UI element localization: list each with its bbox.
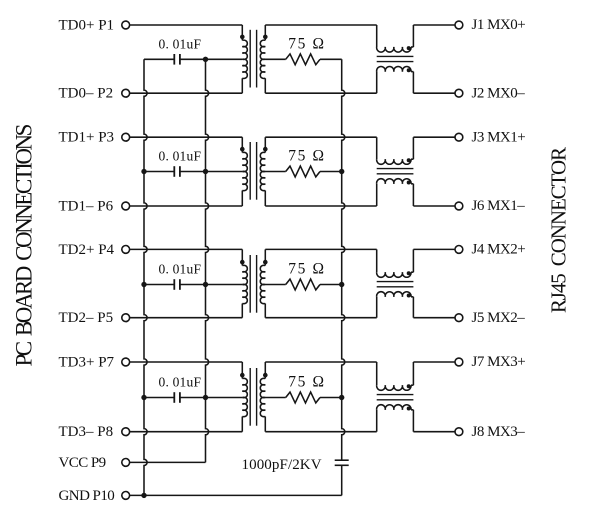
wire: ch2 secondary bottom rail bbox=[265, 205, 376, 207]
svg-text:TD3– P8: TD3– P8 bbox=[59, 424, 114, 440]
pin terminal J5 bbox=[455, 314, 463, 322]
junction: GND bus / GND rail bbox=[141, 493, 146, 498]
svg-text:TD0+ P1: TD0+ P1 bbox=[59, 18, 115, 34]
wire: ch4 secondary top rail bbox=[265, 361, 376, 363]
pin terminal P1 bbox=[122, 21, 130, 29]
wire: choke L4 bottom-right drop bbox=[412, 410, 414, 432]
wire: choke L1 top-left drop bbox=[376, 25, 378, 47]
wire: choke L3 top-left drop bbox=[376, 249, 378, 272]
svg-text:0. 01uF: 0. 01uF bbox=[159, 375, 202, 390]
svg-text:J8 MX3–: J8 MX3– bbox=[472, 424, 526, 440]
wire: ch3 secondary center tap to resistor bbox=[265, 284, 285, 286]
T3 core bbox=[249, 255, 251, 313]
pin terminal J7 bbox=[455, 358, 463, 366]
wire: T2 primary top stub bbox=[241, 137, 243, 152]
svg-text:1000pF/2KV: 1000pF/2KV bbox=[242, 457, 322, 473]
pin terminal P4 bbox=[122, 246, 130, 254]
wire: ch3 to J output minus bbox=[413, 317, 455, 319]
svg-text:TD3+ P7: TD3+ P7 bbox=[59, 355, 115, 371]
wire: L4 bottom winding to corner bbox=[411, 409, 413, 411]
pin terminal J4 bbox=[455, 246, 463, 254]
wire: T1 primary top stub bbox=[241, 25, 243, 40]
wire: choke L2 bottom-right drop bbox=[412, 184, 414, 206]
wire: ch3 secondary bottom rail bbox=[265, 317, 376, 319]
svg-text:J7 MX3+: J7 MX3+ bbox=[472, 354, 526, 370]
wire: T4 secondary top stub bbox=[264, 362, 266, 379]
svg-text:J5 MX2–: J5 MX2– bbox=[472, 310, 526, 326]
pin terminal P10 bbox=[122, 492, 130, 500]
svg-text:75 Ω: 75 Ω bbox=[288, 148, 325, 165]
wire: ch1 cap line left bbox=[144, 58, 174, 60]
wire: L2 bottom winding to corner bbox=[411, 183, 413, 185]
wire: T4 primary bottom stub bbox=[241, 417, 243, 432]
svg-text:75 Ω: 75 Ω bbox=[288, 261, 325, 278]
wire: ch3 cap line left bbox=[144, 284, 174, 286]
junction: resistor bus / ch2 bbox=[339, 169, 344, 174]
pin terminal P8 bbox=[122, 428, 130, 436]
capacitor C2 0.01uF bbox=[173, 166, 175, 177]
capacitor C3 0.01uF bbox=[173, 279, 175, 290]
L2 top winding bbox=[377, 159, 411, 164]
L3 bottom polarity dot bbox=[407, 294, 411, 298]
T2 primary polarity dot bbox=[240, 147, 245, 152]
wire: 1000pF cap to GND rail bbox=[341, 465, 343, 495]
svg-text:J2 MX0–: J2 MX0– bbox=[472, 85, 526, 101]
wire: choke L4 bottom-left drop bbox=[376, 410, 378, 432]
wire: Pch3 plus line left bbox=[130, 248, 243, 250]
wire: GND P10 rail bbox=[130, 494, 342, 496]
wire: T4 primary top stub bbox=[241, 362, 243, 379]
L3 top polarity dot bbox=[407, 271, 411, 275]
T3 secondary polarity dot bbox=[263, 260, 268, 265]
wire: T3 secondary bottom stub bbox=[264, 304, 266, 318]
T3 secondary winding bbox=[260, 265, 265, 303]
T2 core bbox=[249, 142, 251, 200]
svg-text:75 Ω: 75 Ω bbox=[288, 374, 325, 391]
wire: choke L1 top-right rise bbox=[412, 25, 414, 47]
L1 bottom polarity dot bbox=[407, 68, 411, 72]
wire: ch1 to J output plus bbox=[413, 24, 455, 26]
pin terminal J8 bbox=[455, 428, 463, 436]
T4 core bbox=[249, 368, 251, 426]
wire: ch1 secondary bottom rail bbox=[265, 92, 376, 94]
wire: ch1 secondary top rail bbox=[265, 24, 376, 26]
L2 core bbox=[377, 168, 414, 170]
wire: T3 primary top stub bbox=[241, 249, 243, 265]
wire: ch2 secondary top rail bbox=[265, 136, 376, 138]
T4 primary winding bbox=[242, 378, 247, 416]
wire: ch4 cap line left bbox=[144, 397, 174, 399]
L3 core bbox=[377, 281, 414, 283]
wire: ch2 cap line left bbox=[144, 171, 174, 173]
svg-text:J4 MX2+: J4 MX2+ bbox=[472, 242, 526, 258]
svg-text:TD2– P5: TD2– P5 bbox=[59, 310, 114, 326]
L1 top winding bbox=[377, 47, 411, 52]
wire: ch4 to J output minus bbox=[413, 431, 455, 433]
T1 core bbox=[249, 30, 251, 88]
T1 secondary winding bbox=[260, 40, 265, 78]
wire: Pch1 plus line left bbox=[130, 24, 243, 26]
capacitor C1 0.01uF bbox=[173, 54, 175, 65]
L4 core bbox=[377, 394, 414, 396]
wire: choke L4 top-right rise bbox=[412, 362, 414, 385]
wire: T1 secondary bottom stub bbox=[264, 78, 266, 93]
L4 bottom winding bbox=[377, 405, 411, 410]
wire: ch1 to J output minus bbox=[413, 92, 455, 94]
svg-text:TD2+ P4: TD2+ P4 bbox=[59, 242, 115, 258]
wire: resistor common bus vertical bbox=[342, 59, 345, 460]
pin terminal P2 bbox=[122, 89, 130, 97]
svg-text:TD1– P6: TD1– P6 bbox=[59, 199, 114, 215]
wire: Pch2 plus line left bbox=[130, 136, 243, 138]
wire: choke L1 bottom-left drop bbox=[376, 72, 378, 94]
wire: ch2 to J output minus bbox=[413, 205, 455, 207]
junction: VCC bus / ch2 cap line bbox=[203, 169, 208, 174]
resistor R4 75 ohm bbox=[286, 392, 320, 403]
L2 bottom polarity dot bbox=[407, 181, 411, 185]
wire: T2 primary bottom stub bbox=[241, 191, 243, 207]
pin terminal P5 bbox=[122, 314, 130, 322]
wire: ch1 minus line left bbox=[130, 92, 243, 94]
L1 bottom winding bbox=[377, 67, 411, 72]
T4 secondary winding bbox=[260, 378, 265, 416]
svg-text:VCC P9: VCC P9 bbox=[59, 455, 106, 471]
L3 bottom winding bbox=[377, 292, 411, 297]
junction: resistor bus / ch3 bbox=[339, 282, 344, 287]
wire: R1 to resistor bus bbox=[320, 58, 342, 60]
L4 bottom polarity dot bbox=[407, 407, 411, 411]
resistor R1 75 ohm bbox=[286, 54, 320, 65]
wire: choke L1 bottom-right drop bbox=[412, 72, 414, 94]
wire: ch4 secondary center tap to resistor bbox=[265, 397, 285, 399]
svg-text:0. 01uF: 0. 01uF bbox=[159, 262, 202, 277]
svg-text:RJ45 CONNECTOR: RJ45 CONNECTOR bbox=[546, 147, 570, 313]
T1 secondary polarity dot bbox=[263, 35, 268, 40]
wire: ch2 to J output plus bbox=[413, 136, 455, 138]
pin terminal J1 bbox=[455, 21, 463, 29]
wire: ch3 to J output plus bbox=[413, 248, 455, 250]
wire: T4 secondary bottom stub bbox=[264, 417, 266, 432]
T2 secondary polarity dot bbox=[263, 147, 268, 152]
pin terminal P7 bbox=[122, 358, 130, 366]
T1 primary winding bbox=[242, 40, 247, 78]
pin terminal J6 bbox=[455, 202, 463, 210]
wire: ch2 minus line left bbox=[130, 205, 243, 207]
svg-text:TD1+ P3: TD1+ P3 bbox=[59, 130, 115, 146]
L1 core bbox=[377, 55, 414, 57]
pin terminal P6 bbox=[122, 202, 130, 210]
junction: resistor bus / ch4 bbox=[339, 395, 344, 400]
wire: R3 to resistor bus bbox=[320, 284, 342, 286]
T4 secondary polarity dot bbox=[263, 373, 268, 378]
wire: ch3 minus line left bbox=[130, 317, 243, 319]
wire: ch4 cap line to primary center tap bbox=[180, 397, 242, 399]
wire: GND bus vertical (cap left commons) bbox=[144, 59, 147, 495]
junction: VCC bus / ch4 cap line bbox=[203, 395, 208, 400]
junction: GND bus / ch2 cap line bbox=[141, 169, 146, 174]
junction: GND bus / ch4 cap line bbox=[141, 395, 146, 400]
wire: choke L3 top-right rise bbox=[412, 249, 414, 272]
wire: T2 secondary top stub bbox=[264, 137, 266, 152]
junction: GND bus / ch3 cap line bbox=[141, 282, 146, 287]
T1 primary polarity dot bbox=[240, 35, 245, 40]
wire: ch2 cap line to primary center tap bbox=[180, 171, 242, 173]
L4 top polarity dot bbox=[407, 384, 411, 388]
L3 top winding bbox=[377, 272, 411, 277]
wire: choke L4 top-left drop bbox=[376, 362, 378, 385]
wire: L1 top winding to corner bbox=[411, 46, 413, 48]
junction: VCC bus / ch1 cap line bbox=[203, 57, 208, 62]
L1 top polarity dot bbox=[407, 46, 411, 50]
wire: R4 to resistor bus bbox=[320, 397, 342, 399]
svg-text:TD0– P2: TD0– P2 bbox=[59, 86, 114, 102]
wire: VCC P9 to vertical bus bbox=[130, 461, 206, 463]
pin terminal P3 bbox=[122, 133, 130, 141]
wire: T1 primary bottom stub bbox=[241, 78, 243, 93]
svg-text:J6 MX1–: J6 MX1– bbox=[472, 198, 526, 214]
svg-text:J3 MX1+: J3 MX1+ bbox=[472, 129, 526, 145]
T3 primary winding bbox=[242, 265, 247, 303]
wire: T2 secondary bottom stub bbox=[264, 191, 266, 207]
pin terminal J2 bbox=[455, 89, 463, 97]
wire: L3 bottom winding to corner bbox=[411, 296, 413, 298]
svg-text:75 Ω: 75 Ω bbox=[288, 35, 325, 52]
wire: choke L3 bottom-right drop bbox=[412, 297, 414, 318]
wire: ch4 to J output plus bbox=[413, 361, 455, 363]
resistor R3 75 ohm bbox=[286, 279, 320, 290]
wire: T1 secondary top stub bbox=[264, 25, 266, 40]
capacitor C4 0.01uF bbox=[173, 392, 175, 403]
wire: L3 top winding to corner bbox=[411, 271, 413, 273]
wire: ch1 cap line to primary center tap bbox=[180, 58, 242, 60]
wire: L1 bottom winding to corner bbox=[411, 71, 413, 73]
T2 primary winding bbox=[242, 152, 247, 190]
svg-text:0. 01uF: 0. 01uF bbox=[159, 149, 202, 164]
wire: choke L2 bottom-left drop bbox=[376, 184, 378, 206]
wire: ch3 secondary top rail bbox=[265, 248, 376, 250]
svg-text:GND P10: GND P10 bbox=[59, 488, 115, 504]
wire: T3 secondary top stub bbox=[264, 249, 266, 265]
wire: VCC bus vertical (cap right commons) bbox=[206, 59, 209, 462]
svg-text:J1 MX0+: J1 MX0+ bbox=[472, 17, 526, 33]
svg-text:0. 01uF: 0. 01uF bbox=[159, 37, 202, 52]
wire: choke L3 bottom-left drop bbox=[376, 297, 378, 318]
junction: VCC bus / ch3 cap line bbox=[203, 282, 208, 287]
L2 bottom winding bbox=[377, 179, 411, 184]
wire: ch1 secondary center tap to resistor bbox=[265, 58, 285, 60]
L4 top winding bbox=[377, 385, 411, 390]
wire: ch4 minus line left bbox=[130, 431, 243, 433]
T3 primary polarity dot bbox=[240, 260, 245, 265]
wire: L4 top winding to corner bbox=[411, 384, 413, 386]
wire: T3 primary bottom stub bbox=[241, 304, 243, 318]
wire: choke L2 top-right rise bbox=[412, 137, 414, 159]
wire: Pch4 plus line left bbox=[130, 361, 243, 363]
wire: choke L2 top-left drop bbox=[376, 137, 378, 159]
T4 primary polarity dot bbox=[240, 373, 245, 378]
L2 top polarity dot bbox=[407, 158, 411, 162]
pin terminal P9 bbox=[122, 459, 130, 467]
svg-text:PC BOARD CONNECTIONS: PC BOARD CONNECTIONS bbox=[12, 124, 37, 366]
wire: ch3 cap line to primary center tap bbox=[180, 284, 242, 286]
wire: ch4 secondary bottom rail bbox=[265, 431, 376, 433]
wire: L2 top winding to corner bbox=[411, 158, 413, 160]
capacitor C5 1000pF/2KV bbox=[335, 459, 349, 461]
pin terminal J3 bbox=[455, 133, 463, 141]
T2 secondary winding bbox=[260, 152, 265, 190]
resistor R2 75 ohm bbox=[286, 166, 320, 177]
wire: R2 to resistor bus bbox=[320, 171, 342, 173]
wire: ch2 secondary center tap to resistor bbox=[265, 171, 285, 173]
